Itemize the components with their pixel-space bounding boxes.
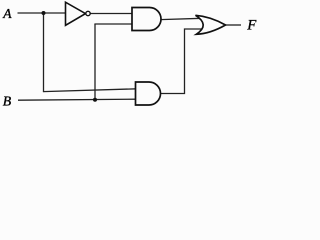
AND gate bottom (136, 82, 161, 105)
node junction dot on B line (93, 98, 97, 102)
wire OR output (226, 24, 242, 26)
wire A branch vertical (43, 13, 45, 92)
svg-text:B: B (3, 93, 12, 108)
wire B to AND1 riser horizontal (94, 23, 133, 25)
wire AND2 output (160, 29, 202, 94)
OR gate (196, 15, 226, 34)
wire NOT output to AND1 (91, 13, 134, 15)
wire B input (18, 99, 137, 100)
svg-text:F: F (246, 18, 257, 34)
wire AND1 output to OR (160, 18, 202, 19)
svg-text:A: A (2, 6, 12, 21)
wire A input (18, 12, 67, 14)
node junction dot on A line (42, 11, 46, 15)
wire B to AND1 riser vertical (94, 24, 96, 100)
AND gate top (132, 8, 161, 31)
wire A branch horizontal to AND2 (43, 89, 137, 92)
inverter NOT gate (66, 2, 91, 25)
